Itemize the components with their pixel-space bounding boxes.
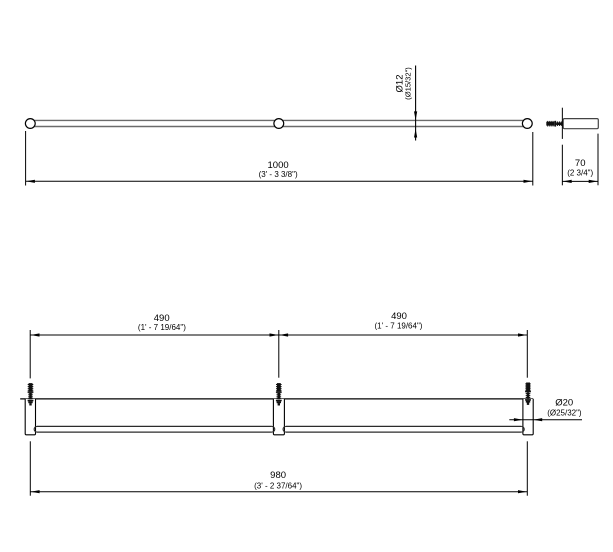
svg-text:(1' - 7 19/64"): (1' - 7 19/64") <box>138 323 186 332</box>
svg-text:980: 980 <box>270 470 286 481</box>
svg-text:(2 3/4"): (2 3/4") <box>567 169 593 178</box>
screw right (front view) <box>525 383 531 405</box>
bar front view rails <box>37 426 522 432</box>
dimension 1000 extension lines <box>26 131 533 186</box>
side view wall line <box>561 108 563 186</box>
post middle (front view) <box>273 399 284 435</box>
dimension 980 line with arrows <box>30 491 527 493</box>
screw middle (front view) <box>276 383 282 405</box>
front view wall line <box>20 398 533 400</box>
diameter 12 leader arrows <box>415 66 417 141</box>
post circle middle (top view) <box>274 119 284 129</box>
post circle right (top view) <box>522 119 532 129</box>
screw left (front view) <box>28 383 34 405</box>
dimension 490 left extension lines <box>30 330 279 378</box>
bar top view (two gray lines) <box>30 120 527 126</box>
post left (front view) <box>25 399 35 435</box>
side view screw <box>546 121 568 127</box>
dimension 490 right extension line <box>526 330 528 378</box>
dimension 980 extension lines <box>30 441 527 495</box>
dimension diameter 20 line with arrows <box>509 419 582 421</box>
bar end cap arcs <box>34 426 524 432</box>
svg-text:Ø20: Ø20 <box>555 398 573 409</box>
dimension 490 left line with arrows <box>30 334 279 336</box>
post circle left (top view) <box>25 119 35 129</box>
dimension 1000 line with arrows <box>26 180 533 182</box>
svg-text:(Ø15/32"): (Ø15/32") <box>404 67 413 100</box>
svg-text:(1' - 7 19/64"): (1' - 7 19/64") <box>375 322 423 331</box>
side view bar rectangle <box>563 119 598 129</box>
dimension 70 extension line <box>597 134 599 186</box>
svg-text:(Ø25/32"): (Ø25/32") <box>547 408 582 417</box>
dimension 490 right line with arrows <box>279 334 528 336</box>
svg-text:490: 490 <box>391 311 407 322</box>
dimension 70 line with arrows <box>562 180 598 182</box>
svg-text:(3' - 2 37/64"): (3' - 2 37/64") <box>254 481 302 490</box>
svg-text:70: 70 <box>575 158 586 169</box>
post right (front view) <box>523 399 533 435</box>
svg-text:(3' - 3 3/8"): (3' - 3 3/8") <box>259 170 298 179</box>
